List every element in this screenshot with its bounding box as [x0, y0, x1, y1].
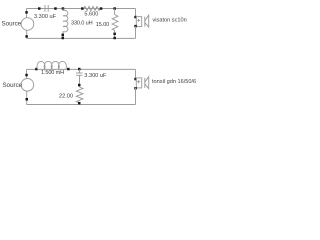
speaker2 cone	[145, 77, 149, 89]
svg-text:visaton sc10n: visaton sc10n	[153, 17, 187, 23]
node speaker2 minus terminal	[134, 87, 137, 90]
speaker2 driver bar	[144, 78, 146, 88]
wire top rail 2	[27, 68, 136, 70]
wire speaker bottom drop	[135, 26, 137, 38]
node source2 top terminal	[25, 74, 28, 77]
svg-text:1.500 mH: 1.500 mH	[41, 70, 64, 76]
svg-text:15.00: 15.00	[96, 22, 109, 28]
wire top rail	[27, 8, 136, 10]
svg-text:3.300 uF: 3.300 uF	[84, 73, 107, 79]
svg-text:Source: Source	[3, 82, 23, 89]
node L2 left terminal	[35, 68, 38, 71]
node L1 bottom terminal	[62, 34, 65, 37]
svg-text:330.0 uH: 330.0 uH	[71, 20, 93, 26]
node R3 bottom terminal	[78, 102, 81, 105]
node L1 bottom junction	[62, 37, 65, 40]
resistor R2 15.00 (shunt zigzag)	[112, 9, 118, 39]
speaker cone	[145, 15, 149, 27]
capacitor C2 3.300 uF	[76, 73, 83, 75]
wire source top stub	[26, 9, 28, 18]
wire source2 top stub	[26, 69, 28, 78]
wire bottom rail 2	[27, 104, 136, 106]
node C1 left terminal	[38, 7, 41, 10]
speaker visaton sc10n body	[136, 17, 141, 27]
node R2 top junction	[113, 7, 116, 10]
wire branch2 middle	[79, 75, 81, 87]
wire source2 bottom stub	[26, 91, 28, 104]
node L2 right terminal	[67, 68, 70, 71]
node speaker2 plus terminal	[134, 78, 137, 81]
node speaker minus terminal	[134, 25, 137, 28]
inductor L2 1.500 mH (series coil)	[37, 61, 66, 69]
node source top terminal	[25, 11, 28, 14]
node R3 top terminal	[78, 84, 81, 87]
node C1 right terminal	[54, 7, 57, 10]
node source bottom terminal	[25, 35, 28, 38]
node R2 bottom terminal	[113, 33, 116, 36]
resistor R1 5.600 (series zigzag)	[84, 6, 100, 10]
node R2 bottom junction	[113, 37, 116, 40]
wire speaker2 top drop	[135, 69, 137, 78]
node L1 top junction	[62, 7, 64, 10]
wire speaker2 bottom drop	[135, 88, 137, 105]
speaker driver bar	[144, 17, 146, 27]
svg-text:22.00: 22.00	[59, 93, 73, 99]
wire bottom rail	[27, 37, 136, 39]
source V1	[21, 18, 34, 31]
svg-text:3.300 uF: 3.300 uF	[34, 14, 57, 20]
speaker2 plus sign	[137, 80, 140, 83]
wire speaker top drop	[135, 9, 137, 17]
source V2	[21, 79, 34, 92]
speaker tonsil body	[136, 78, 141, 88]
node R1 right terminal	[100, 7, 103, 10]
node speaker plus terminal	[134, 16, 137, 18]
capacitor C1 3.300 uF	[45, 5, 48, 12]
wire source bottom stub	[26, 30, 28, 38]
inductor L1 330.0 uH (shunt coil)	[63, 9, 68, 39]
node source2 bottom terminal	[26, 98, 29, 101]
node C2 top junction	[78, 68, 81, 71]
resistor R3 22.00 (zigzag)	[76, 87, 83, 105]
node R1 left terminal	[81, 7, 84, 10]
svg-text:Source: Source	[2, 20, 22, 27]
svg-text:tonsil gdn 16/50/6: tonsil gdn 16/50/6	[152, 79, 196, 85]
wire branch2 upper	[79, 69, 81, 73]
speaker plus sign	[137, 19, 140, 22]
svg-text:5.600: 5.600	[84, 12, 98, 18]
